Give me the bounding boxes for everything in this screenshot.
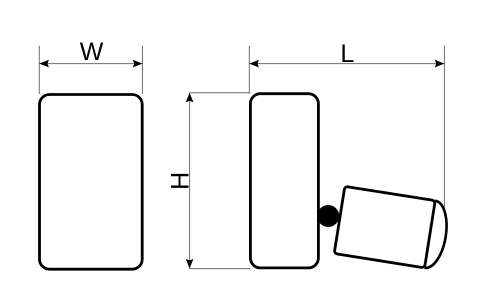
svg-text:L: L [340,40,354,68]
svg-text:W: W [80,38,104,66]
svg-text:H: H [166,172,194,190]
